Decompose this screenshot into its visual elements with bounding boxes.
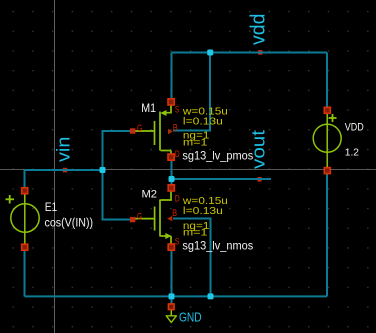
transistor M2 sg13_lv_nmos [134, 191, 171, 245]
net pin vdd [258, 50, 263, 55]
M2 source arrow [165, 233, 171, 239]
svg-text:l=0.13u: l=0.13u [183, 205, 223, 217]
wire M1 bulk to vdd [173, 53, 210, 131]
svg-text:cos(V(IN)): cos(V(IN)) [45, 215, 94, 229]
wire M1 source to vdd rail [171, 53, 173, 102]
junction at vin node [100, 167, 106, 173]
svg-text:sg13_lv_pmos: sg13_lv_pmos [182, 148, 253, 162]
wire M2 bulk to ground [173, 219, 211, 297]
net pin vout [258, 177, 262, 182]
svg-text:l=0.13u: l=0.13u [183, 115, 223, 127]
svg-text:M1: M1 [141, 102, 156, 115]
svg-text:S: S [175, 104, 180, 114]
svg-text:M2: M2 [142, 188, 158, 200]
wire vdd rail top [172, 52, 328, 54]
svg-text:B: B [173, 122, 178, 132]
y axis line [54, 0, 56, 333]
svg-text:m=1: m=1 [183, 137, 208, 149]
junction at vout node [169, 176, 175, 182]
wire vin node down to M2 gate [103, 170, 131, 220]
M2 pin D [168, 185, 174, 191]
VDD pin minus [324, 168, 330, 174]
transistor M1 sg13_lv_pmos [134, 105, 171, 158]
wire M1 drain to M2 drain [171, 157, 173, 188]
wire ground rail bottom [25, 295, 328, 297]
svg-text:sg13_lv_nmos: sg13_lv_nmos [182, 238, 253, 252]
junction at vdd rail and bulk wire [207, 50, 213, 56]
svg-text:G: G [137, 123, 142, 133]
M2 pin B triangle [167, 216, 172, 221]
svg-text:m=1: m=1 [183, 227, 208, 239]
wire VDD source minus down to ground rail [326, 171, 328, 297]
wire M2 source to ground rail [171, 247, 173, 297]
svg-text:B: B [172, 208, 177, 218]
voltage source VDD [313, 113, 341, 168]
M2 pin G [130, 217, 135, 222]
E1 pin minus [22, 244, 28, 250]
svg-text:G: G [137, 212, 142, 222]
svg-text:D: D [175, 149, 180, 159]
wire E1 plus lead up [24, 170, 26, 191]
net pin vin [63, 168, 68, 173]
junction at ground rail M2 source [169, 293, 175, 299]
E1 pin plus [22, 188, 28, 194]
svg-text:D: D [175, 194, 180, 204]
wire ground stub below rail [171, 296, 173, 305]
M2 pin S [168, 244, 174, 250]
x axis line [0, 169, 376, 171]
M1 source arrow [160, 110, 166, 116]
svg-text:vdd: vdd [248, 14, 270, 46]
M1 pin D [168, 154, 174, 160]
svg-text:vin: vin [53, 137, 73, 162]
svg-text:GND: GND [179, 310, 202, 325]
svg-text:S: S [175, 237, 180, 247]
wire vout horizontal [172, 178, 272, 180]
voltage source E1 [6, 193, 40, 244]
VDD pin plus [324, 107, 330, 113]
svg-text:VDD: VDD [345, 122, 364, 134]
M1 pin B triangle [168, 129, 173, 134]
svg-text:1.2: 1.2 [345, 148, 359, 159]
wire vin node up to M1 gate [103, 131, 131, 170]
junction at ground rail M2 bulk [208, 293, 214, 299]
M1 pin S [168, 99, 174, 105]
svg-text:E1: E1 [45, 200, 58, 214]
ground pin square [168, 304, 174, 310]
wire E1 minus lead down [24, 247, 26, 296]
ground symbol [166, 310, 176, 323]
wire vdd rail to VDD source plus [326, 53, 328, 111]
wire vin horizontal [25, 169, 103, 171]
M1 pin G [130, 128, 135, 133]
svg-text:vout: vout [249, 130, 269, 169]
